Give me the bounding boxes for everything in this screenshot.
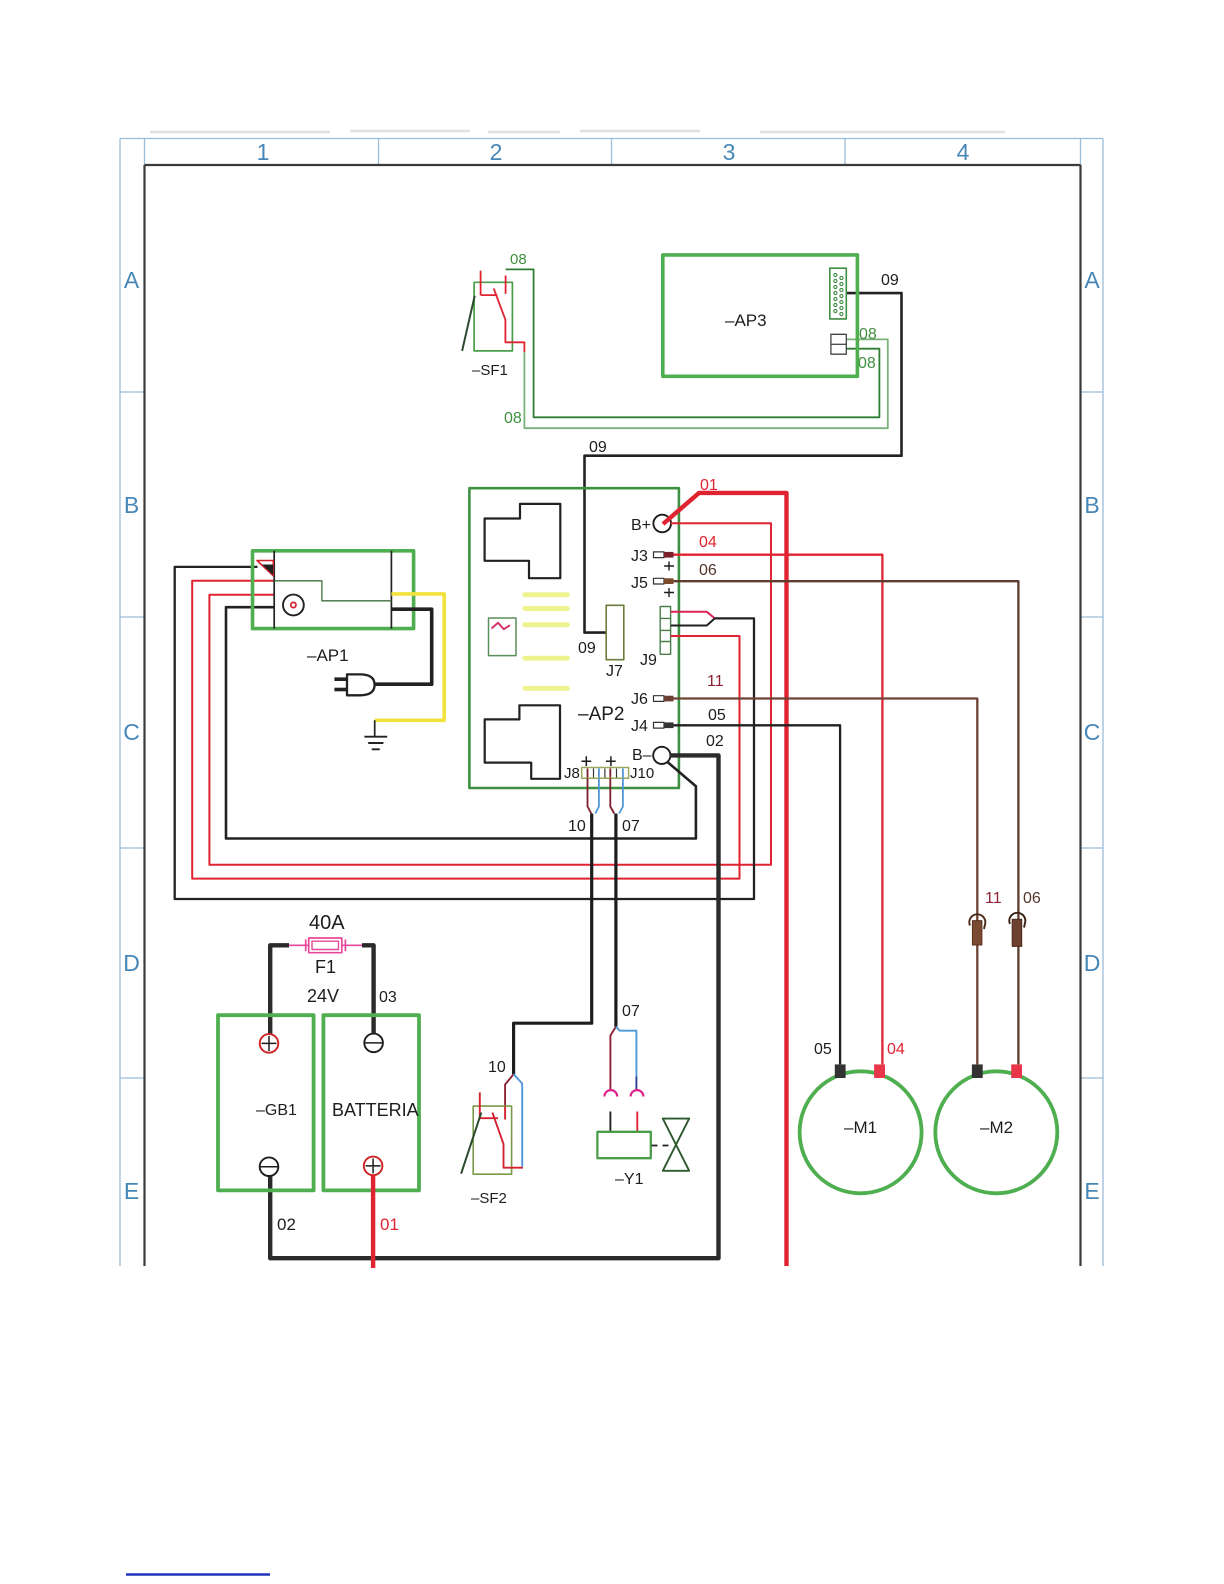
svg-text:01: 01 [380,1215,399,1234]
label 03 [379,989,397,1006]
label 09 (above AP2) [589,439,607,456]
label 10 (below J8) [568,818,586,835]
AP1 mains cable [375,609,432,684]
wire 03 (battery link right) [362,945,374,1034]
Y1 plug contact left (magenta) [604,1090,617,1096]
BATTERIA negative terminal [364,1034,383,1053]
wire 08 (SF1 top contact to AP3 lower pin) [506,269,880,417]
switch SF1 [462,271,524,352]
label 11 (at connector) [985,890,1002,907]
label GB1 [256,1102,297,1119]
label F1 [315,957,336,977]
svg-text:09: 09 [589,439,607,456]
svg-text:05: 05 [708,707,726,724]
svg-text:D: D [123,950,140,976]
wire 09 (AP3 to AP2 J7) [585,293,902,632]
label 02 (battery) [277,1215,296,1234]
label M1 [844,1118,877,1137]
label 11 (near J6) [707,673,724,690]
label 05 (near J4) [708,707,726,724]
wire B- sense (black loop to AP1) [226,607,696,838]
label 07 (above Y1) [622,1003,640,1020]
label 06 (near J5) [699,562,717,579]
svg-text:–M2: –M2 [980,1118,1013,1137]
AP1 mains plug [334,674,374,695]
J10 plus mark [606,756,616,766]
svg-text:3: 3 [723,139,736,165]
connector J4 [631,718,674,735]
wire B+ sense (red loop to AP1) [209,523,771,865]
svg-text:BATTERIA: BATTERIA [332,1100,419,1120]
wire 06 (J5 to M2) [674,581,1019,1064]
wire 10 split to SF2 (maroon) [505,1074,513,1106]
svg-text:04: 04 [699,534,717,551]
ground [364,720,387,749]
svg-text:06: 06 [699,562,717,579]
GB1 negative terminal [260,1157,279,1176]
label AP1 [307,646,349,665]
svg-text:J9: J9 [640,652,657,669]
svg-text:J4: J4 [631,718,648,735]
wire 07 (J10 to Y1) [614,814,617,1027]
label 07 (below J10) [622,818,640,835]
svg-text:03: 03 [379,989,397,1006]
connector J9 [660,607,670,655]
wire 01 (B+ to battery, main red) [663,493,787,1266]
svg-text:06: 06 [1023,890,1041,907]
wire battery link left [270,945,289,1034]
label 08 (AP3 lower pin) [858,355,876,372]
wire J9 red loop (to AP1) [192,581,739,879]
J9 crimp terminal (arrow) [671,612,715,626]
J8 plus mark [582,756,592,766]
svg-text:J6: J6 [631,691,648,708]
label 24V [307,986,339,1006]
label J9 [640,652,657,669]
connector J5 [631,575,674,597]
AP2 yellow bars [525,595,568,689]
svg-text:1: 1 [257,139,270,165]
svg-text:J3: J3 [631,548,648,565]
svg-text:J10: J10 [630,765,654,782]
svg-text:09: 09 [881,272,899,289]
svg-text:E: E [124,1178,139,1204]
valve symbol (bowtie) [663,1119,689,1171]
connector J7 [606,605,624,659]
wire 04 (J3 to M1) [674,555,883,1065]
label 08 (left of corner) [504,410,522,427]
svg-text:08: 08 [510,251,527,268]
svg-text:07: 07 [622,818,640,835]
wire 11 (J6 to M2) [674,699,978,1065]
connector J8/J10 strip [582,768,629,779]
svg-text:–AP2: –AP2 [578,704,624,725]
svg-text:A: A [124,267,140,293]
svg-text:–M1: –M1 [844,1118,877,1137]
svg-text:–GB1: –GB1 [256,1102,297,1119]
label SF1 [472,362,508,379]
wire 10 (J8 to SF2) [514,814,592,1075]
wire 02 (B- to battery GB1) [270,755,718,1258]
wire J9 black loop (to AP1) [175,567,754,899]
fuse F1 [288,938,363,953]
label AP3 [725,311,767,330]
svg-text:08: 08 [504,410,522,427]
label AP2 [578,704,624,725]
label Y1 [615,1171,644,1188]
svg-text:B–: B– [632,747,652,764]
control unit AP3 [663,255,858,376]
AP2 heatsink bottom [485,705,560,779]
AP3 lower connector (2-pin) [831,334,846,354]
label J7 [606,663,623,680]
svg-text:10: 10 [568,818,586,835]
svg-text:05: 05 [814,1041,832,1058]
svg-text:E: E [1084,1178,1099,1204]
power module AP1 [253,551,414,629]
label 08 (AP3 upper pin) [859,326,877,343]
label 09 (inside AP2 at J7) [578,640,596,657]
svg-text:09: 09 [578,640,596,657]
motor M2 [935,1064,1057,1193]
svg-text:4: 4 [957,139,970,165]
Y1 actuator dashed link [652,1145,672,1147]
svg-text:01: 01 [700,477,718,494]
J8 pin wires [588,778,599,813]
AP2 heatsink top [485,504,561,578]
terminal B- [632,747,670,764]
svg-text:24V: 24V [307,986,339,1006]
svg-text:B: B [124,492,139,518]
svg-text:02: 02 [706,733,724,750]
wire 07 split to Y1 (blue) [616,1027,637,1090]
svg-text:–AP1: –AP1 [307,646,349,665]
solenoid valve Y1 [597,1132,650,1158]
wire 01 (battery positive down) [371,1175,375,1268]
label J8 [564,765,580,782]
Y1 lead black [609,1112,611,1132]
svg-text:B: B [1084,492,1099,518]
label 40A [309,912,345,934]
svg-text:–SF2: –SF2 [471,1190,507,1207]
GB1 positive terminal [260,1034,279,1053]
label 04 (near J3) [699,534,717,551]
svg-text:02: 02 [277,1215,296,1234]
Y1 plug contact right (magenta) [631,1090,644,1096]
motor M1 [800,1064,922,1193]
label 09 (near AP3) [881,272,899,289]
inline connector 06 (brown) [1009,913,1025,947]
svg-text:D: D [1084,950,1101,976]
inline connector 11 (brown) [969,914,985,945]
svg-text:07: 07 [622,1003,640,1020]
svg-text:C: C [1084,719,1101,745]
label 05 (at M1) [814,1041,832,1058]
svg-text:11: 11 [707,673,724,690]
Y1 lead red [636,1112,638,1132]
terminal B+ [631,515,671,534]
svg-text:40A: 40A [309,912,345,934]
svg-text:B+: B+ [631,517,651,534]
svg-text:J7: J7 [606,663,623,680]
AP3 upper connector (pin header) [830,268,847,319]
label J10 [630,765,654,782]
svg-text:11: 11 [985,890,1002,907]
wire 08 (SF1 lever to AP3 upper pin) [524,339,887,428]
switch SF2 [461,1092,523,1174]
AP2 relay (red squiggle box) [489,618,517,656]
label 04 (at M1) [887,1041,905,1058]
AP1 earth wire (yellow) [375,594,445,720]
svg-text:A: A [1084,267,1100,293]
BATTERIA positive terminal [364,1157,383,1176]
svg-text:08: 08 [859,326,877,343]
label 01 (battery) [380,1215,399,1234]
svg-text:04: 04 [887,1041,905,1058]
label BATTERIA [332,1100,419,1120]
controller AP2 [469,488,679,788]
svg-text:J8: J8 [564,765,580,782]
svg-text:08: 08 [858,355,876,372]
svg-text:–AP3: –AP3 [725,311,767,330]
wire 10 split to SF2 (blue) [514,1074,523,1166]
svg-text:C: C [123,719,140,745]
svg-text:F1: F1 [315,957,336,977]
wire 05 (J4 to M1) [674,725,841,1064]
label M2 [980,1118,1013,1137]
label 02 (near B-) [706,733,724,750]
label SF2 [471,1190,507,1207]
svg-text:–SF1: –SF1 [472,362,508,379]
J10 pin wires [610,778,623,813]
battery BATTERIA [323,1015,419,1190]
svg-text:–Y1: –Y1 [615,1171,644,1188]
svg-text:2: 2 [490,139,503,165]
label 08 (top of SF1) [510,251,527,268]
svg-text:J5: J5 [631,575,648,592]
connector J3 [631,548,674,571]
connector J6 [631,691,674,708]
battery GB1 [218,1015,314,1190]
label 01 (near B+) [700,477,718,494]
wire 07 split to Y1 (maroon) [610,1027,616,1090]
label 06 (at connector) [1023,890,1041,907]
svg-text:10: 10 [488,1059,506,1076]
label 10 (above SF2) [488,1059,506,1076]
